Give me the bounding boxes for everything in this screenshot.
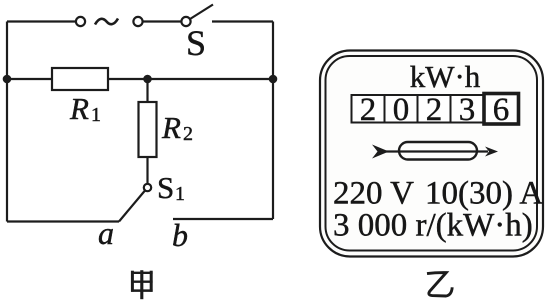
node junction right: [269, 75, 278, 84]
energy meter inner case: [326, 56, 538, 251]
wire between terminal and switch S: [143, 20, 181, 22]
svg-text:0: 0: [393, 92, 410, 128]
node junction left: [3, 75, 12, 84]
register digit cell 1: [352, 95, 385, 123]
svg-text:b: b: [172, 217, 188, 253]
svg-text:R: R: [161, 110, 181, 145]
wire from node to R2: [146, 79, 148, 102]
svg-text:1: 1: [91, 104, 101, 126]
energy meter outer case: [320, 51, 543, 257]
svg-text:220 V 10(30) A: 220 V 10(30) A: [333, 176, 543, 212]
wire top-right horizontal: [212, 20, 273, 22]
svg-text:a: a: [98, 215, 114, 251]
terminal circle right of AC source: [133, 17, 142, 26]
wire right vertical: [272, 22, 274, 220]
register digit cell 3: [418, 95, 451, 123]
wire middle row left segment: [7, 78, 52, 80]
register digit cell 4: [451, 95, 484, 123]
terminal circle left of AC source: [76, 17, 85, 26]
svg-text:6: 6: [493, 92, 510, 128]
caption yi (meter B) drawn glyph: [427, 273, 452, 296]
svg-text:3: 3: [459, 92, 476, 128]
svg-text:1: 1: [175, 183, 185, 205]
svg-text:2: 2: [360, 92, 377, 128]
svg-text:2: 2: [426, 92, 443, 128]
AC source tilde symbol: [95, 19, 118, 25]
wire bottom-left to contact a: [7, 220, 119, 222]
wire left vertical: [6, 22, 8, 222]
svg-text:2: 2: [183, 123, 193, 145]
resistor R2: [139, 102, 157, 157]
node junction middle: [143, 75, 152, 84]
switch S pivot circle: [181, 17, 190, 26]
wire bottom-right from contact b: [173, 218, 273, 220]
disc rotation arrow head: [485, 147, 498, 157]
wire top-left horizontal: [7, 20, 75, 22]
svg-text:3 000 r/(kW·h): 3 000 r/(kW·h): [333, 208, 533, 244]
svg-text:S: S: [186, 23, 206, 63]
svg-text:R: R: [69, 91, 89, 126]
caption jia (circuit A) drawn glyph: [131, 270, 153, 299]
switch S blade: [190, 5, 213, 20]
resistor R1: [52, 68, 108, 90]
switch S1 pivot circle: [144, 184, 151, 191]
meter disc slot capsule: [399, 142, 477, 160]
wire middle row right segment: [108, 78, 273, 80]
register digit cell 5 (highlighted): [484, 94, 519, 125]
register digit cell 2: [385, 95, 418, 123]
svg-text:S: S: [157, 170, 174, 205]
wire from R2 to switch S1: [146, 157, 148, 184]
disc rotation arrow line: [386, 150, 488, 152]
svg-text:kW·h: kW·h: [410, 59, 481, 94]
disc rotation arrow tail: [372, 145, 389, 159]
switch S1 blade: [119, 191, 145, 222]
